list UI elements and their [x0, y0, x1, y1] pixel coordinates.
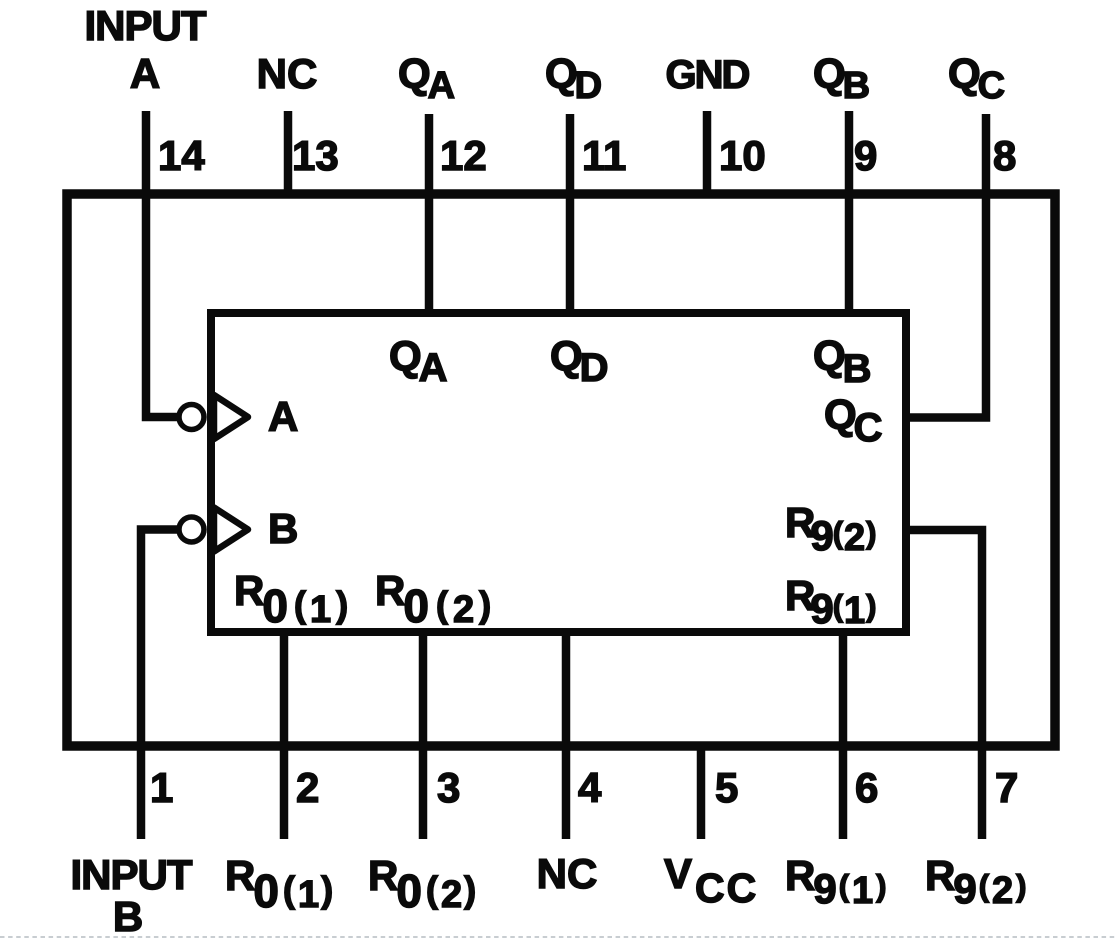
svg-text:5: 5 [715, 764, 738, 811]
svg-text:3: 3 [437, 764, 460, 811]
svg-text:QD: QD [545, 50, 602, 107]
svg-text:VCC: VCC [664, 850, 758, 911]
svg-text:10: 10 [719, 132, 766, 179]
wire pin 7 R9(2) [906, 530, 982, 839]
svg-text:2: 2 [296, 764, 319, 811]
counter block U1 [211, 313, 906, 632]
svg-text:QB: QB [813, 332, 872, 391]
svg-text:R9(1): R9(1) [785, 572, 877, 632]
svg-text:R9(2): R9(2) [925, 852, 1027, 912]
wire pin 12 QA [425, 114, 434, 313]
wire pin 9 QB [845, 111, 854, 313]
svg-text:QC: QC [948, 50, 1005, 107]
svg-text:14: 14 [158, 132, 205, 179]
svg-text:GND: GND [666, 53, 750, 97]
svg-text:R0(2): R0(2) [375, 567, 491, 632]
svg-text:R9(1): R9(1) [785, 852, 887, 912]
svg-text:NC: NC [537, 850, 598, 897]
package outline [67, 194, 1055, 746]
label INPUT A (pin 14 top) [85, 2, 207, 97]
svg-text:A: A [130, 50, 160, 97]
svg-text:R0(1): R0(1) [234, 567, 348, 632]
svg-text:QA: QA [398, 50, 455, 107]
wire pin 13 NC stub [284, 111, 293, 194]
svg-text:R9(2): R9(2) [785, 499, 877, 559]
svg-text:QA: QA [389, 333, 448, 391]
svg-text:QB: QB [813, 50, 870, 107]
wire pin 11 QD [566, 114, 575, 313]
svg-text:B: B [113, 893, 143, 940]
wire pin 8 QC [906, 114, 986, 418]
svg-text:8: 8 [993, 132, 1016, 179]
wire pin 10 GND stub [703, 111, 712, 194]
svg-text:13: 13 [292, 132, 339, 179]
svg-text:R0(2): R0(2) [368, 852, 476, 917]
svg-text:1: 1 [150, 764, 173, 811]
page-break dashed rule [0, 936, 1115, 938]
svg-text:A: A [268, 393, 298, 440]
wire pin 4 NC [562, 632, 571, 839]
svg-text:NC: NC [257, 50, 318, 97]
label INPUT B (pin 1 bottom) [71, 851, 193, 940]
svg-text:INPUT: INPUT [71, 851, 193, 898]
svg-text:QC: QC [824, 391, 883, 450]
svg-text:R0(1): R0(1) [225, 852, 333, 917]
svg-text:6: 6 [855, 764, 878, 811]
svg-text:QD: QD [550, 333, 609, 391]
svg-text:B: B [268, 505, 298, 552]
wire pin 2 R0(1) [280, 632, 289, 839]
wire pin 3 R0(2) [419, 632, 428, 839]
svg-text:9: 9 [854, 132, 877, 179]
wire pin 14 INPUT A to inverter A [146, 111, 178, 417]
svg-text:4: 4 [578, 764, 602, 811]
svg-text:7: 7 [995, 764, 1018, 811]
svg-text:INPUT: INPUT [85, 2, 207, 49]
svg-text:11: 11 [582, 132, 626, 179]
svg-text:12: 12 [440, 132, 487, 179]
wire pin 6 R9(1) [839, 632, 848, 839]
wire pin 1 INPUT B to inverter B [141, 530, 178, 840]
inverter A clock wedge [179, 395, 248, 439]
inverter B clock wedge [179, 508, 248, 552]
wire pin 5 VCC stub [697, 746, 706, 839]
